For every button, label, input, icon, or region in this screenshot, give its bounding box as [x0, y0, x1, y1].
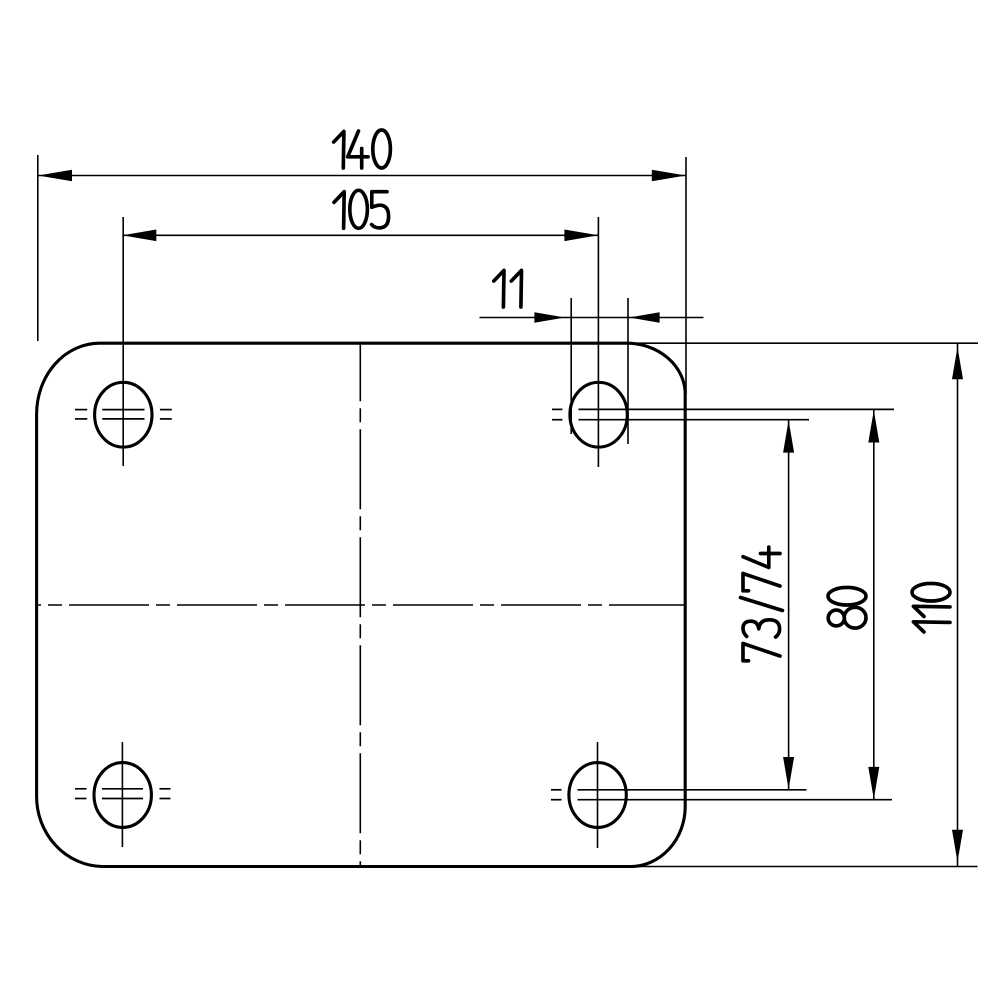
dimension line 80 — [873, 410, 875, 800]
dimension line 105 — [122, 234, 598, 236]
arrowhead 105 right — [564, 230, 598, 242]
hole TL circle — [95, 382, 152, 447]
label 140 — [334, 130, 391, 168]
label 110 (rotated) — [912, 583, 950, 632]
arrowhead 73/74 bottom — [783, 757, 794, 789]
plate horizontal centerline — [36, 604, 684, 606]
label 105 — [334, 190, 389, 228]
dimension line 73/74 — [788, 421, 790, 790]
extension line hole tangent right (11) — [627, 298, 629, 444]
arrowhead 73/74 top — [783, 420, 794, 452]
plate vertical centerline — [359, 343, 361, 866]
arrowhead 80 bottom — [868, 767, 879, 799]
dimension line 110 — [957, 344, 959, 867]
arrowhead 110 bottom — [952, 830, 963, 862]
hole TL vertical centerline (105 extension) — [122, 217, 124, 466]
arrowhead 110 top — [952, 347, 963, 379]
hole BL horizontal double lines — [75, 789, 171, 799]
dimension line 11 — [480, 317, 704, 319]
plate outline — [37, 343, 686, 866]
hole BL vertical centerline — [121, 742, 123, 847]
hole BR circle — [569, 763, 626, 828]
hole TR vertical centerline (105 extension) — [597, 217, 599, 467]
arrowhead 11 left (outside, pointing right) — [534, 312, 565, 322]
arrowhead 140 right — [652, 170, 686, 182]
label 11 — [494, 270, 522, 307]
arrowhead 80 top — [868, 410, 879, 442]
extension line top edge to right (110) — [627, 342, 978, 344]
extension line bottom edge to right (110) — [630, 866, 978, 868]
extension line hole tangent left (11) — [570, 298, 572, 434]
hole BR horizontal lines extended right — [551, 790, 892, 800]
arrowhead 140 left — [38, 170, 72, 182]
arrowhead 105 left — [122, 230, 156, 242]
arrowhead 11 right (outside, pointing left) — [629, 312, 660, 322]
label 80 (rotated) — [828, 587, 866, 628]
extension line left edge (140) — [37, 155, 39, 341]
hole TR circle — [570, 382, 627, 447]
label 73/74 (rotated) — [741, 547, 783, 661]
hole BR vertical centerline — [597, 742, 599, 848]
hole TR horizontal lines extended right for 80 dim — [552, 409, 894, 419]
hole BL circle — [94, 763, 151, 828]
hole TL horizontal double lines — [75, 410, 172, 419]
dimension line 140 — [38, 175, 686, 177]
extension line right edge (140) — [685, 157, 687, 394]
